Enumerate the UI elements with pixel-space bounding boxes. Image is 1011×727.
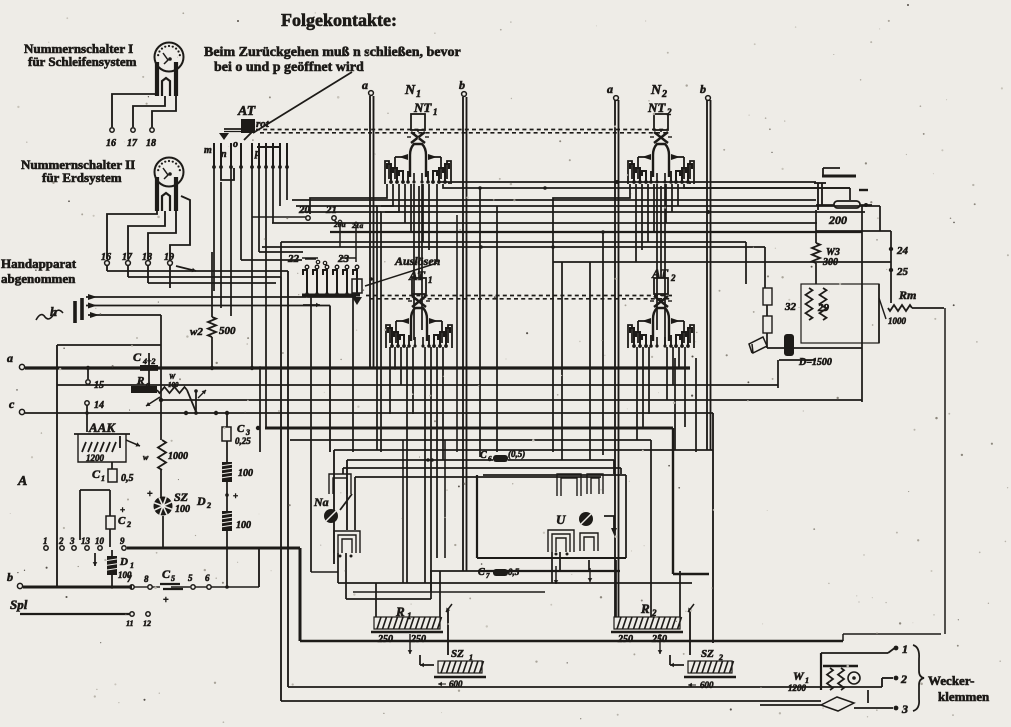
svg-text:AT: AT [408, 268, 426, 283]
svg-text:2: 2 [126, 520, 131, 529]
svg-text:Folgekontakte:: Folgekontakte: [281, 10, 397, 30]
relay AT1 armature cross [412, 296, 426, 307]
relay AT1 armature shaft [408, 335, 410, 347]
bus line y400 [162, 399, 862, 401]
svg-text:w: w [143, 453, 149, 462]
svg-text:a: a [362, 78, 368, 92]
svg-text:5: 5 [171, 574, 175, 583]
vertical 865 down [861, 205, 863, 402]
AT n-contact loop [221, 168, 234, 180]
svg-text:C: C [162, 567, 171, 581]
svg-text:22: 22 [287, 253, 300, 265]
svg-text:1: 1 [433, 107, 438, 117]
svg-text:32: 32 [784, 301, 797, 313]
N2 bank descending wires [553, 184, 630, 247]
svg-text:600: 600 [449, 679, 463, 689]
bus line y385 [57, 384, 778, 386]
wires dial I to terminals [112, 94, 157, 127]
svg-text:w2: w2 [190, 326, 203, 338]
svg-text:250: 250 [410, 634, 426, 645]
white inner box [476, 475, 478, 558]
svg-text:11: 11 [126, 619, 134, 628]
thick vertical u-right [672, 428, 674, 574]
svg-text:13: 13 [81, 536, 91, 546]
handset squiggle h [36, 310, 63, 320]
svg-text:W: W [169, 373, 176, 381]
arrow under Ra [146, 397, 160, 406]
relay NT2 contact bank [630, 164, 634, 183]
U down arrows [555, 566, 557, 584]
svg-text:a: a [7, 351, 13, 365]
Wecker terminals 1 2 3 [894, 646, 899, 651]
bus line y440 [290, 439, 651, 441]
relay AT2 coil [654, 278, 668, 294]
terminal 14 [85, 401, 89, 405]
svg-text:NT: NT [413, 100, 432, 115]
relay AT1 coil [412, 278, 426, 294]
svg-text:SZ: SZ [451, 648, 464, 660]
junction [226, 482, 228, 511]
contact bank 22 23 [302, 294, 360, 297]
bell gong [848, 672, 860, 684]
terminals 24 25 [889, 247, 893, 251]
bus wires upper band [440, 181, 816, 183]
svg-text:+: + [233, 491, 238, 501]
svg-text:R: R [640, 601, 650, 616]
svg-text:500: 500 [219, 325, 236, 337]
svg-text:300: 300 [822, 257, 838, 268]
relay AT2 armature shaft [650, 335, 652, 347]
inner frame rows [343, 467, 621, 469]
svg-text:NT: NT [647, 100, 666, 115]
svg-text:1200: 1200 [86, 453, 105, 463]
U lower contacts [548, 530, 574, 552]
svg-text:klemmen: klemmen [938, 689, 990, 704]
R2 terminals [615, 560, 617, 617]
dotted row (Folgekontakte) upper [256, 129, 668, 131]
svg-text:N: N [404, 83, 416, 98]
svg-text:0,25: 0,25 [235, 436, 251, 446]
brace [913, 645, 924, 711]
relay AT2 contact bank [630, 328, 634, 347]
coil 100 upper [222, 462, 232, 482]
svg-text:Na: Na [313, 495, 329, 509]
relay NT2 armature cross [654, 132, 668, 143]
relay NT2 bell [653, 144, 669, 177]
wire w2 branch [56, 345, 58, 587]
svg-text:Spl: Spl [10, 597, 28, 612]
svg-text:2: 2 [670, 273, 676, 283]
frame wire left outer [280, 277, 282, 701]
svg-text:1: 1 [130, 561, 134, 570]
relay AT1 contact bank [388, 328, 392, 347]
svg-text:14: 14 [94, 400, 104, 411]
relay NT1 coil [411, 114, 425, 130]
svg-text:1200: 1200 [788, 683, 807, 693]
svg-text:D: D [119, 556, 128, 568]
pennant contact [749, 337, 767, 353]
svg-text:2: 2 [900, 672, 907, 686]
svg-text:200: 200 [828, 213, 847, 227]
svg-text:2: 2 [58, 536, 64, 546]
wires from NS II terminals to right [106, 266, 108, 271]
scan speckles [645, 20, 646, 21]
svg-text:N: N [650, 83, 662, 98]
svg-text:10: 10 [95, 536, 105, 546]
svg-text:D: D [196, 494, 206, 508]
arrow at terminal 19 [176, 266, 196, 271]
svg-text:17: 17 [127, 138, 138, 149]
svg-text:100: 100 [238, 468, 253, 479]
relay AT2 armature cross [654, 296, 668, 307]
AT armature bracket and arrow [224, 128, 243, 130]
svg-text:Rm: Rm [898, 288, 916, 302]
svg-text:2: 2 [666, 107, 672, 117]
capacitor stack left [763, 288, 772, 305]
terminals 16 17 18 (NS I) [110, 128, 114, 132]
svg-text:7: 7 [127, 574, 132, 584]
R1 terminals [375, 583, 377, 617]
svg-text:rot: rot [256, 118, 270, 130]
svg-text:6: 6 [205, 573, 210, 583]
svg-text:o: o [233, 139, 238, 150]
svg-text:Beim Zurückgehen muß n schließ: Beim Zurückgehen muß n schließen, bevor [204, 45, 461, 60]
svg-text:AT: AT [237, 104, 257, 119]
svg-text:Handapparat: Handapparat [1, 256, 77, 271]
dial II [155, 158, 184, 187]
svg-text:1: 1 [416, 89, 421, 100]
switch arm right box [879, 298, 886, 319]
svg-text:0,5: 0,5 [508, 567, 520, 577]
relay NT1 bell [410, 144, 426, 177]
Na lower contacts [334, 531, 360, 553]
svg-text:24: 24 [896, 245, 909, 257]
wire to terminal 1 [821, 652, 888, 654]
svg-text:16: 16 [106, 138, 116, 149]
dotted row lower [366, 295, 672, 297]
svg-text:b: b [700, 82, 706, 96]
R1 down arrow [409, 634, 411, 654]
relay D 1500 [784, 334, 794, 356]
extra tangle verticals [674, 358, 676, 450]
svg-text:6: 6 [488, 455, 492, 463]
bus line y428 thick [265, 427, 673, 430]
relay 200 [822, 175, 856, 178]
svg-text:+: + [120, 505, 125, 515]
relay AT2 bell [653, 308, 669, 341]
svg-text:+: + [147, 489, 153, 500]
R2 switch to SZ2 [689, 611, 691, 655]
svg-text:100: 100 [175, 504, 190, 515]
AT2 bank descending wires [636, 347, 638, 440]
right jog to Wecker line [842, 634, 844, 641]
svg-text:8: 8 [144, 574, 149, 584]
svg-text:12: 12 [143, 619, 151, 628]
svg-text:C: C [133, 350, 142, 364]
svg-text:SZ: SZ [174, 490, 189, 504]
relay NT2 armature shaft [650, 171, 652, 183]
relay NT1 armature flags [399, 154, 408, 160]
svg-text:2: 2 [661, 89, 667, 100]
AT1 bank descending wires [394, 347, 396, 368]
pointer line from note to AT contacts [253, 72, 352, 133]
release magnet AT1 [352, 279, 362, 293]
svg-text:1: 1 [902, 642, 908, 656]
relay AT1 armature flags [400, 318, 409, 324]
relay AT2 armature flags [642, 318, 651, 324]
terminal 15 [87, 368, 89, 379]
relay NT2 armature flags [642, 154, 651, 160]
R1 switch to SZ1 [447, 611, 449, 655]
svg-text:1000: 1000 [888, 316, 907, 326]
relay NT1 contact bank [387, 164, 391, 183]
svg-text:1: 1 [428, 275, 433, 285]
svg-text:AAK: AAK [88, 420, 116, 435]
AT bank descending wires [213, 168, 215, 291]
svg-text:A: A [17, 474, 27, 489]
svg-text:C: C [92, 467, 101, 481]
relay AT1 bell [411, 308, 427, 341]
relay NT1 armature shaft [407, 171, 409, 183]
svg-text:1: 1 [101, 474, 105, 483]
svg-text:W: W [793, 669, 805, 683]
svg-text:C: C [237, 423, 245, 435]
relay NT2 coil [654, 114, 668, 130]
junction dots mid band [86, 366, 90, 370]
svg-text:Wecker-: Wecker- [928, 673, 974, 688]
svg-text:0,5: 0,5 [121, 473, 134, 484]
svg-text:b: b [7, 570, 13, 584]
svg-text:7: 7 [486, 572, 490, 580]
hook switch bars [73, 301, 77, 323]
svg-text:h: h [50, 304, 57, 319]
coil 100 lower [222, 511, 232, 531]
svg-text:18: 18 [146, 138, 156, 149]
svg-text:R: R [136, 375, 144, 387]
svg-text:1: 1 [43, 536, 48, 546]
svg-text:abgenommen: abgenommen [1, 271, 76, 286]
svg-text:2: 2 [206, 501, 211, 510]
switch arm x196 [195, 390, 197, 412]
svg-text:15: 15 [94, 380, 104, 391]
svg-text:Auslösen: Auslösen [394, 254, 441, 268]
arrow down at 13 [94, 553, 96, 566]
svg-text:250: 250 [617, 634, 633, 645]
svg-text:b: b [459, 78, 465, 92]
resistors 32 29 box [801, 284, 879, 343]
svg-text:c: c [9, 397, 15, 411]
wires dial II to terminals [107, 211, 157, 259]
svg-text:bei o und p geöffnet wird: bei o und p geöffnet wird [214, 60, 364, 75]
wire right edge down to Wecker [944, 308, 946, 634]
svg-text:5: 5 [188, 573, 193, 583]
svg-text:U: U [556, 512, 566, 527]
frame wire left inner [287, 271, 289, 687]
svg-text:C: C [478, 567, 485, 578]
svg-text:100: 100 [236, 520, 251, 531]
svg-text:für Schleifensystem: für Schleifensystem [28, 54, 137, 69]
svg-text:3: 3 [901, 702, 908, 716]
svg-text:250: 250 [651, 634, 667, 645]
svg-text:SZ: SZ [701, 648, 714, 660]
svg-text:9: 9 [120, 536, 125, 546]
clapper [821, 697, 854, 711]
svg-text:(0,5): (0,5) [508, 449, 525, 459]
box top wire [334, 449, 713, 451]
svg-text:D=1500: D=1500 [798, 357, 832, 368]
svg-text:250: 250 [377, 634, 393, 645]
dial I [155, 43, 184, 72]
N1 bank descending wires [310, 184, 387, 214]
svg-text:m: m [204, 145, 212, 156]
svg-text:a: a [607, 82, 613, 96]
AT contact bank [213, 143, 215, 166]
svg-text:25: 25 [896, 266, 909, 278]
svg-text:C: C [118, 515, 126, 527]
R2 down arrow [659, 634, 661, 654]
relay NT1 armature cross [411, 132, 425, 143]
bus verticals mid [479, 188, 481, 457]
svg-text:1000: 1000 [168, 451, 188, 462]
arrow under bank 22 [303, 304, 320, 306]
svg-text:+: + [163, 595, 169, 606]
thick wire from terminal 9 [127, 547, 300, 550]
relay AT coil (black) [241, 119, 255, 133]
svg-text:23: 23 [337, 253, 350, 265]
svg-text:3: 3 [69, 536, 75, 546]
svg-text:600: 600 [700, 680, 714, 690]
hook contact wires [86, 296, 356, 298]
pointer to release magnet [365, 263, 437, 286]
U arrow [604, 516, 614, 530]
